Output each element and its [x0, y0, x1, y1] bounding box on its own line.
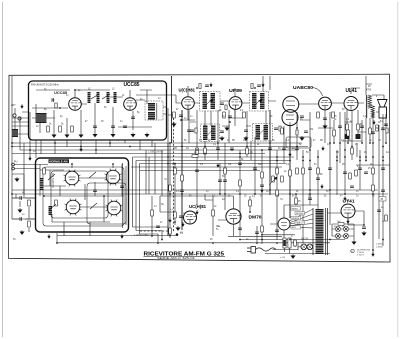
- junction 50: [372, 249, 374, 251]
- drum wires: [270, 205, 318, 238]
- junction 54: [204, 153, 206, 155]
- under UF89 res2: [243, 112, 246, 118]
- junction 49: [169, 235, 171, 237]
- capacitor fill 27: [260, 185, 264, 187]
- svg-text:1M: 1M: [243, 140, 246, 142]
- resistor fill2 8: [333, 130, 336, 136]
- mains plug: [247, 247, 256, 254]
- svg-text:N+: N+: [217, 224, 221, 228]
- junction 26: [336, 156, 338, 158]
- under UCH81 gnd: [172, 122, 176, 126]
- junction 38: [269, 189, 271, 191]
- under UCH81 cap: [179, 115, 183, 117]
- resistor fill 33: [169, 228, 172, 234]
- IF T4 coil a: [256, 125, 261, 140]
- tube UCH81: [182, 97, 195, 110]
- flow arrow 5: [289, 152, 292, 156]
- IF T2 arrow: [254, 98, 262, 106]
- capacitor fill 6: [230, 148, 234, 150]
- junction 21: [296, 146, 298, 148]
- antenna arrow: [21, 104, 24, 108]
- tube UL41: [344, 97, 358, 111]
- svg-text:V 220 V: V 220 V: [357, 254, 365, 256]
- wire y165 right: [356, 164, 390, 166]
- svg-text:FERRITE 470: FERRITE 470: [52, 172, 55, 188]
- page left edge: [2, 2, 4, 337]
- junction 4: [54, 142, 56, 144]
- left gnd mid: [15, 177, 19, 181]
- svg-text:4A: 4A: [386, 151, 389, 154]
- fuse: [294, 240, 297, 246]
- capacitor fill2 7: [156, 226, 160, 228]
- schematic outer border: [9, 74, 391, 262]
- antenna terminal a: [13, 114, 16, 117]
- lamp wires: [298, 243, 313, 250]
- svg-text:UF89: UF89: [229, 88, 243, 93]
- resistor fill 0: [174, 168, 177, 174]
- AM tube d: [107, 201, 121, 215]
- tube UABC80 triode: [319, 97, 332, 110]
- IF T1 arrow: [205, 98, 213, 106]
- junction 15: [239, 153, 241, 155]
- FM box ground 7: [145, 133, 149, 137]
- wire bus y190: [12, 189, 378, 191]
- out wires: [298, 84, 384, 112]
- resistor fill2 4: [295, 198, 298, 204]
- capacitor fill 32: [275, 230, 279, 232]
- junction 70: [219, 193, 221, 195]
- junction 65: [361, 142, 363, 144]
- capacitor fill 19: [343, 172, 347, 174]
- junction 36: [239, 193, 241, 195]
- capacitor fill 34: [238, 228, 242, 230]
- IF T1 coil b: [211, 93, 216, 109]
- tube UCH81 second: [184, 211, 197, 224]
- resistor fill2 10: [347, 130, 350, 136]
- wire vert center: [170, 76, 303, 243]
- svg-text:FM-UKW 87,5-100 MHz: FM-UKW 87,5-100 MHz: [31, 83, 59, 87]
- UF89 top trimmer: [251, 84, 253, 89]
- svg-text:1M: 1M: [228, 164, 231, 166]
- AM wire loop C: [87, 183, 126, 224]
- svg-text:ROSSO: ROSSO: [296, 213, 304, 215]
- junction 67: [385, 142, 387, 144]
- junction 7: [109, 142, 111, 144]
- resistor fill 35: [196, 148, 199, 154]
- svg-text:5B: 5B: [232, 140, 235, 142]
- junction 17: [261, 149, 263, 151]
- speaker: [378, 100, 388, 108]
- svg-text:U(C)H81: U(C)H81: [179, 87, 196, 92]
- AM wire loop B: [51, 171, 108, 218]
- wire bus y236: [57, 235, 282, 238]
- tube UY41: [341, 204, 355, 218]
- FM transformer coil a: [148, 103, 155, 111]
- flow arrow 4: [372, 252, 375, 256]
- IF T3 coil b: [211, 126, 216, 141]
- flow arrow 0: [29, 156, 32, 160]
- resistor fill 9: [261, 172, 264, 178]
- wire bus y153.5: [12, 153, 265, 155]
- svg-text:GIALLO: GIALLO: [296, 222, 304, 225]
- junction 9: [169, 142, 171, 144]
- svg-text:BLU: BLU: [292, 227, 297, 229]
- under UABC80 res: [281, 128, 284, 134]
- right col bits: [376, 125, 379, 131]
- junction 76: [167, 163, 169, 165]
- junction 66: [369, 142, 371, 144]
- FM coil L1: [88, 92, 91, 103]
- AM tube c: [66, 200, 80, 214]
- left input cap 2: [20, 217, 22, 221]
- FM box ground 1: [52, 133, 56, 137]
- junction 31: [372, 142, 374, 144]
- under UL41 arrow: [373, 120, 376, 124]
- filter cap 1: [336, 227, 340, 231]
- power transformer core: [313, 208, 328, 255]
- filter wires: [332, 224, 354, 240]
- under UF89 res: [223, 112, 226, 118]
- svg-text:2C: 2C: [208, 140, 211, 142]
- wire vert left: [12, 76, 30, 219]
- output transformer primary: [368, 95, 372, 108]
- under UCH81 res: [173, 112, 176, 118]
- svg-text:L.OSC.O.M.: L.OSC.O.M.: [134, 233, 148, 237]
- left input resistor 2: [28, 221, 31, 227]
- wire loop UABC bottom: [286, 137, 311, 148]
- AM box resistor 2: [55, 200, 58, 206]
- AM tuner shield box: [36, 158, 129, 232]
- IF T2 coil b: [260, 93, 265, 109]
- capacitor fill 12: [282, 148, 286, 150]
- junction 14: [231, 149, 233, 151]
- FM box ground 4: [93, 133, 97, 137]
- arrow x170: [169, 218, 172, 222]
- junction 42: [344, 193, 346, 195]
- wire y170: [140, 170, 260, 172]
- mid caps x190: [190, 130, 194, 132]
- wire bus y239.5: [240, 239, 345, 241]
- resistor fill2 16: [281, 176, 284, 182]
- FM box cap 2: [111, 126, 115, 128]
- junction 28: [351, 146, 353, 148]
- svg-text:1M: 1M: [310, 129, 313, 131]
- wire bus y143: [12, 142, 302, 144]
- FM box ground 3: [79, 133, 83, 137]
- FM transformer box: [145, 101, 163, 120]
- svg-text:7A: 7A: [280, 198, 283, 201]
- left jack wires: [12, 165, 48, 195]
- capacitor fill 36: [187, 130, 191, 132]
- resistor fill2 20: [349, 173, 352, 179]
- junction 57: [302, 160, 304, 162]
- flow arrow 7: [344, 196, 347, 200]
- AM inner verticals: [123, 163, 127, 228]
- svg-text:1M: 1M: [276, 196, 279, 198]
- capacitor fill2 11: [360, 126, 364, 128]
- FM left parts: [52, 98, 54, 102]
- cable labels: [291, 207, 301, 210]
- capacitor fill 4: [216, 148, 220, 150]
- svg-text:4700: 4700: [366, 90, 372, 92]
- selector gnd: [291, 254, 295, 258]
- resistor fill 29: [372, 185, 375, 191]
- junction 60: [372, 156, 374, 158]
- capacitor fill2 9: [338, 126, 342, 128]
- junction 71: [249, 211, 251, 213]
- UCH81 second arrow: [182, 222, 185, 226]
- junction 78: [344, 156, 346, 158]
- between T1 UF89: [220, 103, 224, 105]
- junction 11: [196, 149, 198, 151]
- tuning gang dashed link: [140, 118, 174, 231]
- junction 30: [365, 156, 367, 158]
- label normale-am strip: [49, 159, 70, 163]
- FM antenna coil: [36, 113, 47, 123]
- junction 59: [359, 160, 361, 162]
- junction 80: [382, 160, 384, 162]
- resistor fill 13: [289, 170, 292, 176]
- capacitor fill 14: [295, 148, 299, 150]
- junction 61: [382, 156, 384, 158]
- flow arrow 2: [261, 188, 264, 192]
- capacitor fill 30: [381, 190, 385, 192]
- junction 58: [336, 160, 338, 162]
- IF can T2 box: [250, 92, 269, 112]
- junction 77: [309, 160, 311, 162]
- svg-text:UABC80: UABC80: [293, 85, 313, 91]
- capacitor fill2 1: [218, 180, 222, 182]
- junction 51: [382, 239, 384, 241]
- svg-text:L 4750: L 4750: [376, 243, 383, 245]
- capacitor fill 38: [223, 180, 227, 182]
- IF can T3 box: [201, 124, 220, 142]
- antenna block: [12, 129, 18, 137]
- junction 24: [317, 156, 319, 158]
- IF T4 coil b: [264, 125, 269, 140]
- wire bus y219 left: [12, 218, 35, 220]
- junction 32: [382, 146, 384, 148]
- under UCH81 bits: [180, 119, 182, 121]
- AM coil 2: [49, 206, 53, 215]
- resistor fill 22: [372, 168, 375, 174]
- wire vert x168-171: [168, 76, 172, 236]
- svg-text:L 4750: L 4750: [376, 246, 383, 248]
- svg-text:4C: 4C: [278, 148, 281, 150]
- capacitor fill 25: [180, 190, 184, 192]
- junction 29: [359, 156, 361, 158]
- flow arrow 6: [217, 163, 220, 167]
- resistor fill 28: [276, 190, 279, 196]
- junction 10: [181, 146, 183, 148]
- arrow x81: [80, 147, 83, 151]
- junction 34: [181, 193, 183, 195]
- output transformer core: [365, 95, 368, 118]
- svg-text:4B: 4B: [174, 148, 177, 150]
- junction 46: [289, 239, 291, 241]
- wire bus y194: [12, 193, 388, 195]
- svg-text:VERDE: VERDE: [292, 218, 300, 220]
- UY41 wires: [327, 199, 364, 225]
- FM coil L0: [114, 92, 117, 103]
- AM box cap 2: [120, 186, 124, 188]
- junction 20: [289, 160, 291, 162]
- junction 37: [254, 193, 256, 195]
- FM tuner shield box: [29, 81, 167, 140]
- FM coil L3: [107, 92, 110, 103]
- capacitor fill 39: [350, 186, 354, 188]
- FM transformer core: [156, 103, 158, 120]
- svg-text:2B: 2B: [364, 152, 367, 154]
- svg-text:UC(H)81: UC(H)81: [189, 204, 207, 209]
- svg-text:6B: 6B: [336, 152, 339, 154]
- wire bus y243: [57, 233, 330, 243]
- IF T4 arrow: [258, 128, 266, 136]
- resistor fill 37: [296, 168, 299, 174]
- capacitor fill 21: [358, 168, 362, 170]
- under triode pot: [317, 112, 320, 118]
- capacitor fill 16: [308, 168, 312, 170]
- junction 1: [11, 146, 13, 148]
- under UF89 cap: [228, 116, 232, 118]
- resistor fill2 6: [151, 210, 154, 216]
- resistor fill 3: [204, 148, 207, 154]
- junction 45: [276, 242, 278, 244]
- AM tube b: [106, 170, 120, 184]
- mid caps x246: [244, 130, 248, 132]
- tube DM70: [226, 209, 241, 224]
- left input wires: [12, 198, 35, 232]
- FM box ground 5: [111, 133, 115, 137]
- svg-text:NERO: NERO: [292, 208, 298, 210]
- junction 35: [224, 193, 226, 195]
- junction 52: [167, 156, 169, 158]
- below AM gnd: [20, 230, 24, 234]
- junction 69: [212, 242, 214, 244]
- resistor fill 31: [261, 226, 264, 232]
- AM box dots: [71, 163, 73, 165]
- wire vert right extra: [300, 112, 386, 160]
- svg-text:6A: 6A: [250, 151, 253, 154]
- junction 55: [239, 156, 241, 158]
- svg-text:1C: 1C: [264, 140, 267, 142]
- junction 68: [333, 142, 335, 144]
- junction 22: [302, 156, 304, 158]
- AM tube a: [65, 171, 79, 185]
- resistor fill 24: [169, 185, 172, 191]
- under UF89 bits: [229, 121, 231, 123]
- tube UABC80 envelope: [283, 96, 299, 112]
- tube UCC85 triode b: [124, 98, 137, 111]
- junction 12: [204, 146, 206, 148]
- junction 19: [276, 156, 278, 158]
- ladder verticals x146-162: [146, 143, 162, 196]
- svg-text:1M: 1M: [357, 136, 360, 138]
- junction 62: [261, 234, 263, 236]
- left jack circle b: [12, 167, 15, 170]
- svg-text:a 125: a 125: [280, 257, 286, 259]
- junction 39: [289, 193, 291, 195]
- junction 8: [129, 146, 131, 148]
- junction 0: [11, 142, 13, 144]
- volume pot: [272, 176, 275, 182]
- UABC80 pointer arc: [313, 88, 323, 97]
- under UABC80 gnd: [300, 136, 304, 140]
- wire y167: [131, 166, 282, 168]
- svg-text:UCC85: UCC85: [124, 82, 140, 88]
- svg-text:UL41: UL41: [346, 88, 358, 94]
- pilot lamp 1: [301, 244, 307, 250]
- junction 3: [29, 149, 31, 151]
- svg-text:1B: 1B: [348, 140, 351, 142]
- resistor fill 26: [239, 180, 242, 186]
- svg-text:SERIE AM-C 325-01: SERIE AM-C 325-01: [157, 257, 196, 260]
- AM box cap 1: [93, 190, 97, 192]
- svg-text:NORMALE-AM: NORMALE-AM: [50, 159, 68, 163]
- AM box wires: [40, 164, 124, 228]
- filter cap 2: [344, 227, 348, 231]
- FM box cap 3: [123, 126, 127, 128]
- selector wires: [282, 240, 298, 254]
- under UL41 bits: [346, 124, 349, 130]
- UY41 cap: [362, 227, 366, 229]
- junction 44: [261, 239, 263, 241]
- mains cable: [256, 248, 277, 251]
- output transformer secondary: [371, 106, 375, 119]
- junction 41: [329, 189, 331, 191]
- svg-text:ANT: ANT: [11, 104, 16, 107]
- tube UCC85 triode a: [69, 98, 82, 111]
- capacitor fill2 19: [364, 172, 368, 174]
- resistor fill 20: [351, 148, 354, 154]
- right col wire y169: [35, 140, 37, 158]
- capacitor fill2 3: [255, 232, 259, 234]
- FM transformer coil b: [148, 112, 155, 120]
- resistor fill 11: [276, 168, 279, 174]
- wire vert FM drops: [41, 140, 152, 154]
- copyright circle: [351, 249, 355, 253]
- title underline: [144, 255, 226, 257]
- AM coil 1: [40, 178, 44, 190]
- junction 73: [151, 235, 153, 237]
- capacitor fill 2: [195, 170, 199, 172]
- svg-text:PU: PU: [14, 161, 18, 164]
- FM box wires: [32, 90, 171, 133]
- resistor fill2 0: [212, 210, 215, 216]
- mid caps x276: [274, 128, 278, 130]
- junction 6: [95, 149, 97, 151]
- wire bus y198 left: [12, 197, 35, 199]
- resistor fill2 2: [249, 200, 252, 206]
- junction 25: [329, 142, 331, 144]
- junction 33: [169, 193, 171, 195]
- FM coil L2: [97, 92, 100, 103]
- arrow x323: [322, 146, 325, 150]
- FM box cap 1: [93, 126, 97, 128]
- capacitor fill 18: [328, 168, 332, 170]
- capacitor fill 10: [268, 148, 272, 150]
- svg-text:DM70: DM70: [249, 215, 262, 220]
- power transformer winding: [316, 209, 324, 254]
- FM trimmer arrow: [91, 94, 110, 99]
- FM box cap 4: [131, 117, 135, 119]
- IF T2 coil a: [252, 93, 257, 109]
- left input resistor 1: [28, 200, 31, 206]
- wire bus y234.8: [262, 234, 295, 236]
- bottom band wires: [64, 164, 310, 244]
- mid caps x222: [220, 131, 224, 133]
- resistor fill 17: [317, 168, 320, 174]
